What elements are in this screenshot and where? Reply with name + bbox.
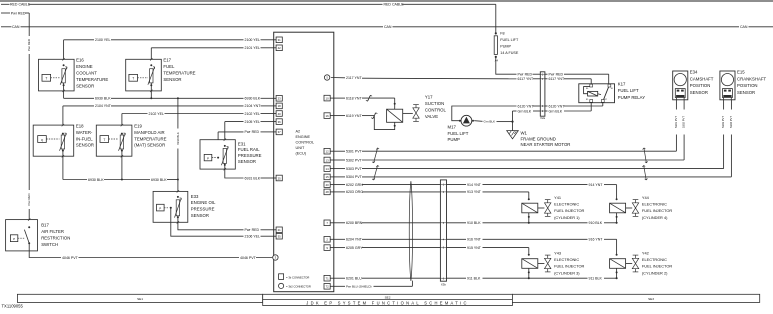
svg-text:SENSOR: SENSOR: [191, 213, 209, 218]
svg-text:Y42: Y42: [642, 251, 649, 256]
wire Pwr RED feed: [1, 12, 10, 14]
svg-text:6117 YNT: 6117 YNT: [518, 77, 534, 81]
svg-text:E31: E31: [238, 141, 246, 146]
svg-text:6119 YNT: 6119 YNT: [346, 114, 362, 118]
svg-text:Pwr RED: Pwr RED: [245, 228, 260, 232]
svg-text:Grn BLK: Grn BLK: [518, 109, 532, 113]
wire 6202 GRN ECU to connector X3: [324, 182, 330, 188]
solenoid valve Y17 SUCTION CONTROL VALVE: [387, 109, 403, 122]
wire E31 to ECU pin 25 6931 BLK: [225, 163, 244, 178]
svg-text:5303 PVT: 5303 PVT: [721, 116, 725, 128]
svg-text:COOLANT: COOLANT: [76, 71, 97, 76]
crossing marks position sensor wires: [374, 148, 378, 163]
ECU pin 35: [276, 233, 282, 239]
svg-text:Grn BLK: Grn BLK: [484, 120, 496, 124]
svg-text:ELECTRONIC: ELECTRONIC: [642, 257, 667, 262]
svg-text:B17: B17: [41, 223, 49, 228]
svg-text:Y44: Y44: [642, 195, 650, 200]
ECU pin 21: [276, 227, 282, 233]
svg-text:6202 GRN: 6202 GRN: [346, 183, 363, 187]
svg-text:T: T: [45, 77, 47, 81]
svg-text:SENSOR: SENSOR: [238, 159, 256, 164]
svg-text:UNIT: UNIT: [296, 146, 306, 150]
title bar section SE1: [17, 294, 262, 302]
svg-text:W1: W1: [521, 131, 528, 136]
wire 6200 BRN ECU to connector X3: [324, 220, 330, 226]
svg-text:71: 71: [326, 277, 330, 281]
wire 6204 YNT X3 to injector Y42: [447, 238, 467, 240]
svg-text:E34: E34: [690, 70, 698, 75]
svg-text:POSITION: POSITION: [737, 83, 758, 88]
svg-text:4046 PVT: 4046 PVT: [62, 256, 79, 260]
svg-text:= 3b2 CONNECTOR: = 3b2 CONNECTOR: [286, 285, 311, 289]
svg-text:Y17: Y17: [425, 94, 433, 99]
svg-text:Pwr RED: Pwr RED: [27, 39, 31, 51]
svg-text:911 BLK: 911 BLK: [589, 276, 603, 280]
connector X3b: [440, 180, 446, 281]
wire 6117 YNT X2 to relay pin 86: [545, 78, 548, 80]
svg-text:23: 23: [278, 97, 282, 101]
wire 5304 PVT ECU pin 15 to crankshaft sensor: [324, 174, 330, 180]
svg-text:E18: E18: [76, 124, 84, 129]
svg-text:6200 BRN: 6200 BRN: [346, 221, 363, 225]
injector Y42 ELECTRONIC FUEL INJECTOR CYLINDER 2: [616, 254, 618, 256]
svg-text:FUEL LIFT: FUEL LIFT: [618, 88, 639, 93]
wire 6930 BLK ground bus to ECU pin 23: [64, 97, 94, 99]
wire E18 to BLK line: [62, 149, 64, 180]
svg-text:916 YNT: 916 YNT: [589, 238, 604, 242]
svg-text:14 A FUSE: 14 A FUSE: [500, 51, 519, 55]
connector X2a: [540, 72, 545, 116]
svg-text:2101 YEL: 2101 YEL: [245, 46, 261, 50]
svg-text:5304 PVT: 5304 PVT: [346, 175, 363, 179]
svg-text:2105 YEL: 2105 YEL: [245, 120, 261, 124]
fuse F8: [495, 32, 497, 34]
svg-text:6120 YNT: 6120 YNT: [518, 104, 535, 108]
svg-text:ELECTRONIC: ELECTRONIC: [554, 257, 579, 262]
wire 4046 PVT switch to ECU pin 3: [29, 243, 61, 257]
svg-text:SE1: SE1: [137, 297, 143, 301]
svg-text:2102 YEL: 2102 YEL: [149, 112, 165, 116]
svg-text:Pwr RED: Pwr RED: [245, 130, 260, 134]
svg-text:6203 ORG: 6203 ORG: [346, 190, 363, 194]
svg-text:Y41: Y41: [554, 195, 561, 200]
svg-text:31: 31: [278, 38, 282, 42]
svg-text:F8: F8: [500, 32, 504, 36]
pump M17 FUEL LIFT PUMP: [461, 115, 472, 126]
shield cable lens: [409, 181, 412, 281]
wire 5303 PVT ECU pin 14 to crankshaft sensor: [324, 166, 330, 172]
svg-text:FRAME GROUND: FRAME GROUND: [521, 136, 556, 141]
svg-text:10: 10: [326, 96, 330, 100]
svg-text:WATER-: WATER-: [76, 130, 93, 135]
svg-text:T: T: [103, 138, 105, 142]
svg-text:RED CABLE: RED CABLE: [10, 3, 31, 7]
svg-text:SENSOR: SENSOR: [76, 83, 94, 88]
svg-text:SE2: SE2: [385, 296, 391, 300]
injector Y44 ELECTRONIC FUEL INJECTOR CYLINDER 4: [616, 198, 618, 200]
svg-text:VALVE: VALVE: [425, 114, 438, 119]
svg-text:MANIFOLD AIR: MANIFOLD AIR: [134, 130, 164, 135]
wire E19 to BLK line: [121, 149, 123, 180]
svg-text:Pwr RED: Pwr RED: [27, 194, 31, 206]
ECU pin 40: [276, 111, 282, 117]
svg-text:6117 YNT: 6117 YNT: [549, 77, 565, 81]
wire 6204 YNT ECU to connector X3: [324, 237, 330, 243]
svg-text:SENSOR: SENSOR: [737, 90, 755, 95]
svg-text:6930 BLK: 6930 BLK: [88, 178, 104, 182]
svg-text:21: 21: [278, 228, 282, 232]
svg-text:RED CABLE: RED CABLE: [384, 3, 405, 7]
wire 6119 YNT ECU to SCV coil bottom: [324, 113, 330, 119]
wire 6201 BLU ECU to connector X3: [324, 275, 330, 281]
wire 2117 YNT ECU to connector X2 pin 2: [324, 75, 329, 80]
svg-text:ENGINE OIL: ENGINE OIL: [191, 200, 216, 205]
svg-text:6120 YNT: 6120 YNT: [549, 104, 566, 108]
svg-text:SENSOR: SENSOR: [690, 90, 708, 95]
svg-text:35: 35: [278, 235, 282, 239]
wire RED CABLE: [1, 3, 10, 5]
ground W1 FRAME GROUND: [512, 122, 514, 131]
svg-text:SUCTION: SUCTION: [425, 101, 444, 106]
svg-text:6930 BLK: 6930 BLK: [245, 97, 261, 101]
switch B17 AIR FILTER RESTRICTION: [6, 220, 38, 251]
wire E33 return Pwr RED to ECU pin 21: [178, 216, 244, 230]
wire 6200 BRN X3 to injectors common row 1: [447, 222, 467, 224]
svg-text:Pwr RED: Pwr RED: [518, 73, 533, 77]
svg-text:CAN: CAN: [384, 25, 392, 29]
svg-text:13: 13: [326, 158, 330, 162]
wire 2105 YEL E31 signal to ECU pin 36: [225, 121, 244, 123]
svg-text:ELECTRONIC: ELECTRONIC: [554, 202, 579, 207]
svg-text:6201 BLU: 6201 BLU: [346, 276, 362, 280]
svg-text:5304 PVT: 5304 PVT: [729, 116, 733, 128]
svg-text:P: P: [159, 206, 161, 210]
svg-text:37: 37: [278, 130, 282, 134]
wire 6118 YNT ECU to SCV coil top: [324, 95, 330, 101]
svg-text:PRESSURE: PRESSURE: [191, 207, 215, 212]
svg-text:6204 YNT: 6204 YNT: [346, 238, 363, 242]
svg-text:TEMPERATURE: TEMPERATURE: [76, 77, 108, 82]
svg-text:FUEL RAIL: FUEL RAIL: [238, 147, 260, 152]
junction E17 ground: [150, 97, 152, 99]
wire 5303 PVT crankshaft sensor A: [723, 100, 725, 110]
svg-text:Pwr RED: Pwr RED: [11, 11, 26, 15]
junction E19 ground: [121, 179, 123, 181]
svg-text:48: 48: [326, 190, 330, 194]
svg-text:FUEL LIFT: FUEL LIFT: [500, 38, 519, 42]
svg-text:CRANKSHAFT: CRANKSHAFT: [737, 76, 767, 81]
sensor E17 FUEL TEMPERATURE: [126, 59, 162, 91]
svg-text:AIR FILTER: AIR FILTER: [41, 229, 64, 234]
wire 6205 GRY ECU to connector X3: [324, 245, 330, 251]
svg-text:= 3b CONNECTOR: = 3b CONNECTOR: [286, 276, 309, 280]
svg-text:36: 36: [278, 120, 282, 124]
svg-text:5301 PVT: 5301 PVT: [674, 116, 678, 128]
wire CAN: [1, 26, 12, 28]
svg-text:2104 YNT: 2104 YNT: [245, 104, 262, 108]
wire pump Grn BLK to ground junction: [474, 120, 482, 123]
svg-text:2102 YEL: 2102 YEL: [245, 112, 261, 116]
svg-text:CONTROL: CONTROL: [296, 141, 315, 145]
svg-text:5302 PVT: 5302 PVT: [346, 158, 363, 162]
svg-text:40: 40: [278, 112, 282, 116]
svg-text:914 YNT: 914 YNT: [467, 183, 482, 187]
junction ground bus riser: [177, 97, 179, 99]
svg-text:CAN: CAN: [12, 25, 20, 29]
svg-text:X2a: X2a: [540, 116, 545, 120]
svg-text:P: P: [13, 237, 15, 241]
ECU pin 31: [276, 37, 282, 43]
wire fuse to connector X2 pin 1: [496, 57, 517, 74]
svg-text:2104 YNT: 2104 YNT: [95, 104, 112, 108]
svg-text:E16: E16: [76, 58, 84, 63]
border top: [0, 0, 773, 2]
svg-text:15: 15: [326, 175, 330, 179]
svg-text:E17: E17: [163, 58, 171, 63]
injector Y43 ELECTRONIC FUEL INJECTOR CYLINDER 3: [528, 254, 530, 256]
wire E17 to BLK bus: [150, 83, 152, 98]
svg-text:PUMP: PUMP: [500, 44, 511, 48]
svg-text:914 YNT: 914 YNT: [589, 183, 604, 187]
svg-text:911 BLK: 911 BLK: [467, 276, 481, 280]
svg-text:POSITION: POSITION: [690, 83, 711, 88]
svg-text:CAN: CAN: [740, 25, 748, 29]
svg-text:ELECTRONIC: ELECTRONIC: [642, 202, 667, 207]
svg-text:915 YNT: 915 YNT: [467, 246, 482, 250]
svg-text:910 BLK: 910 BLK: [589, 221, 603, 225]
wire 2104 YNT WIF to ECU pin 18: [63, 105, 94, 107]
sensor E33 ENGINE OIL PRESSURE: [153, 191, 188, 222]
title bar section SE3: [512, 294, 759, 302]
svg-text:TX1109055: TX1109055: [2, 303, 24, 308]
svg-text:4046 PVT: 4046 PVT: [240, 256, 257, 260]
wire Pwr RED E31 supply to ECU pin 37: [218, 131, 243, 133]
svg-text:Pwr BLU (SHIELD): Pwr BLU (SHIELD): [346, 285, 372, 289]
svg-text:A2: A2: [296, 129, 301, 133]
ECU pin 42: [276, 45, 282, 51]
svg-text:E15: E15: [737, 70, 745, 75]
svg-text:2100 YEL: 2100 YEL: [95, 38, 111, 42]
svg-text:PUMP RELAY: PUMP RELAY: [618, 95, 645, 100]
ECU pin 23: [276, 96, 282, 102]
svg-text:18: 18: [278, 104, 282, 108]
wire pump loop 6120 YNT to connector X2 pin 3: [452, 106, 517, 121]
sensor E15 CRANKSHAFT POSITION: [720, 71, 735, 100]
wire E33 signal 2106 YEL to ECU pin 35: [171, 208, 244, 236]
ECU connector legend: [279, 274, 284, 280]
wire 6205 GRY X3 to injector Y43: [447, 247, 467, 249]
svg-text:(CYLINDER 2): (CYLINDER 2): [642, 270, 668, 275]
wire 6930 BLK sensors ground line: [63, 179, 87, 181]
svg-text:SENSOR: SENSOR: [76, 143, 94, 148]
svg-text:E33: E33: [191, 194, 199, 199]
svg-text:(CYLINDER 3): (CYLINDER 3): [554, 270, 580, 275]
wire 6202 GRN X3 to injector Y44: [447, 184, 467, 186]
svg-text:42: 42: [278, 46, 282, 50]
svg-text:6930 BLK: 6930 BLK: [176, 132, 180, 145]
wire 5302 PVT ECU pin 13 to camshaft sensor: [324, 157, 330, 163]
svg-text:ENGINE: ENGINE: [76, 64, 93, 69]
sensor E18 WATER-IN-FUEL: [33, 125, 73, 156]
svg-text:PRESSURE: PRESSURE: [238, 153, 262, 158]
svg-text:P: P: [207, 156, 209, 160]
svg-text:FUEL: FUEL: [163, 64, 175, 69]
sensor E31 FUEL RAIL PRESSURE: [200, 140, 235, 169]
svg-text:K17: K17: [618, 82, 626, 87]
svg-text:FUEL INJECTOR: FUEL INJECTOR: [554, 208, 584, 213]
svg-text:FUEL INJECTOR: FUEL INJECTOR: [642, 264, 672, 269]
wire 5301 PVT camshaft sensor A: [675, 100, 677, 110]
svg-text:M17: M17: [448, 125, 457, 130]
wire 2102 YEL MAT to ECU pin 40: [122, 113, 148, 115]
wire ground riser 6930 BLK: [177, 98, 179, 128]
svg-text:FUEL INJECTOR: FUEL INJECTOR: [554, 264, 584, 269]
svg-text:PUMP: PUMP: [448, 137, 461, 142]
svg-text:SWITCH: SWITCH: [41, 242, 58, 247]
ECU A2 ENGINE CONTROL UNIT: [274, 32, 334, 292]
svg-text:5302 PVT: 5302 PVT: [682, 116, 686, 128]
svg-text:ENGINE: ENGINE: [296, 135, 311, 139]
wire 6201 BLU X3 to injectors common row 2: [447, 277, 467, 279]
wire Pwr BLU shield drain ECU pin 72: [324, 284, 330, 290]
wire E16 to BLK bus: [63, 83, 65, 98]
svg-text:RESTRICTION: RESTRICTION: [41, 236, 70, 241]
junction riser bottom: [177, 179, 179, 181]
svg-text:6205 GRY: 6205 GRY: [346, 246, 363, 250]
svg-text:Y43: Y43: [554, 251, 561, 256]
wire 6120 YNT X2 to relay pin 87: [545, 105, 548, 107]
svg-text:6930 BLK: 6930 BLK: [95, 97, 111, 101]
svg-text:16: 16: [326, 114, 330, 118]
svg-text:FUEL INJECTOR: FUEL INJECTOR: [642, 208, 672, 213]
svg-text:X3b: X3b: [441, 282, 446, 286]
svg-text:12: 12: [326, 150, 330, 154]
wire 6203 ORG X3 to injector Y41: [447, 191, 467, 193]
svg-text:SE3: SE3: [648, 297, 654, 301]
svg-text:2106 YEL: 2106 YEL: [245, 234, 261, 238]
wire 6203 ORG ECU to connector X3: [324, 189, 330, 195]
wire 5304 PVT crankshaft sensor B: [730, 100, 732, 110]
wire 5302 PVT camshaft sensor B: [683, 100, 685, 110]
wire 2101 YEL E17 to ECU pin 42: [151, 47, 243, 49]
svg-text:916 YNT: 916 YNT: [467, 238, 482, 242]
sensor E34 CAMSHAFT POSITION: [673, 71, 688, 100]
svg-text:CAMSHAFT: CAMSHAFT: [690, 76, 714, 81]
svg-text:2117 YNT: 2117 YNT: [346, 76, 362, 80]
svg-text:IN-FUEL: IN-FUEL: [76, 136, 93, 141]
svg-text:72: 72: [326, 285, 330, 289]
svg-text:913 YNT: 913 YNT: [467, 190, 482, 194]
svg-text:NEAR STARTER MOTOR: NEAR STARTER MOTOR: [521, 142, 571, 147]
svg-text:25: 25: [278, 176, 282, 180]
svg-text:5303 PVT: 5303 PVT: [346, 167, 363, 171]
svg-text:TEMPERATURE: TEMPERATURE: [134, 136, 166, 141]
svg-text:5301 PVT: 5301 PVT: [346, 149, 363, 153]
ECU pin 37: [276, 129, 282, 135]
ECU pin 18: [276, 103, 282, 109]
svg-text:T: T: [132, 77, 134, 81]
ECU pin 25: [276, 175, 282, 181]
junction ground W1: [511, 121, 513, 123]
ECU pin 3 (round): [273, 255, 278, 260]
svg-text:40: 40: [326, 183, 330, 187]
svg-text:TEMPERATURE: TEMPERATURE: [163, 71, 195, 76]
svg-text:6931 BLK: 6931 BLK: [245, 176, 261, 180]
svg-text:A4: A4: [495, 59, 499, 63]
svg-text:14: 14: [326, 167, 330, 171]
injector Y41 ELECTRONIC FUEL INJECTOR CYLINDER 1: [528, 198, 530, 200]
ECU pin 36: [276, 119, 282, 125]
sensor E19 MANIFOLD AIR TEMPERATURE: [96, 125, 132, 156]
svg-text:(CYLINDER 1): (CYLINDER 1): [554, 215, 580, 220]
relay K17 FUEL LIFT PUMP RELAY: [579, 84, 615, 103]
svg-text:2100 YEL: 2100 YEL: [245, 38, 261, 42]
wire Grn BLK X2 to relay pin 85: [545, 110, 548, 112]
sensor E16 ENGINE COOLANT TEMPERATURE: [39, 59, 75, 91]
svg-text:(ECU): (ECU): [296, 152, 307, 156]
svg-text:FUEL LIFT: FUEL LIFT: [448, 131, 469, 136]
svg-text:CONTROL: CONTROL: [425, 108, 447, 113]
svg-text:(MAT) SENSOR: (MAT) SENSOR: [134, 143, 165, 148]
svg-text:Pwr RED: Pwr RED: [549, 72, 564, 76]
svg-text:6930 BLK: 6930 BLK: [151, 178, 167, 182]
svg-text:SENSOR: SENSOR: [163, 77, 181, 82]
svg-text:(CYLINDER 4): (CYLINDER 4): [642, 215, 668, 220]
svg-text:Grn BLK: Grn BLK: [549, 109, 563, 113]
svg-text:910 BLK: 910 BLK: [467, 221, 481, 225]
title bar section SE2: [263, 294, 513, 305]
wire Pwr RED X2 to relay pin 30: [545, 73, 548, 75]
svg-text:JDK EP SYSTEM FUNCTIONAL SCHEM: JDK EP SYSTEM FUNCTIONAL SCHEMATIC: [306, 301, 469, 306]
svg-text:E19: E19: [134, 124, 142, 129]
svg-text:6118 YNT: 6118 YNT: [346, 96, 362, 100]
wire 5301 PVT ECU pin 12 to camshaft sensor: [324, 148, 330, 154]
wire Grn BLK connector X2 pin 4 to ground junction: [513, 110, 517, 112]
